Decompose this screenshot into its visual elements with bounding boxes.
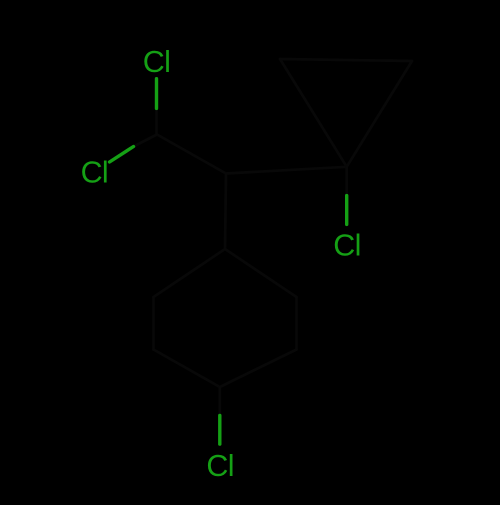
wire Ca-C2 — [226, 167, 347, 174]
wire C1 half to left Cl — [134, 135, 158, 147]
ring edge R5-R4 — [154, 350, 220, 388]
ring edge R4-R3 — [220, 350, 297, 388]
bond half Cl bottom — [218, 416, 221, 445]
ring edge R3-R2 — [295, 297, 298, 350]
wire C2-T2 — [347, 61, 412, 167]
wire T1-T2 — [280, 59, 412, 61]
wire R4 half to bottom Cl — [218, 387, 221, 416]
svg-text:Cl: Cl — [81, 156, 108, 190]
svg-text:Cl: Cl — [206, 449, 233, 483]
ring edge R6-R5 — [152, 297, 155, 350]
wire C2 half to right Cl — [345, 167, 348, 196]
svg-text:Cl: Cl — [333, 229, 360, 263]
bond half Cl left — [110, 147, 134, 163]
ring edge R1-R6 — [154, 249, 226, 297]
bond half Cl top — [155, 79, 158, 109]
svg-text:Cl: Cl — [143, 45, 170, 79]
wire C2-T1 — [280, 59, 347, 167]
wire C1-Ca — [157, 135, 226, 174]
wire C1 half to top Cl — [155, 108, 158, 134]
ring edge R2-R1 — [225, 249, 297, 297]
bond half Cl right — [345, 196, 348, 225]
wire Ca-R1 — [225, 174, 226, 250]
